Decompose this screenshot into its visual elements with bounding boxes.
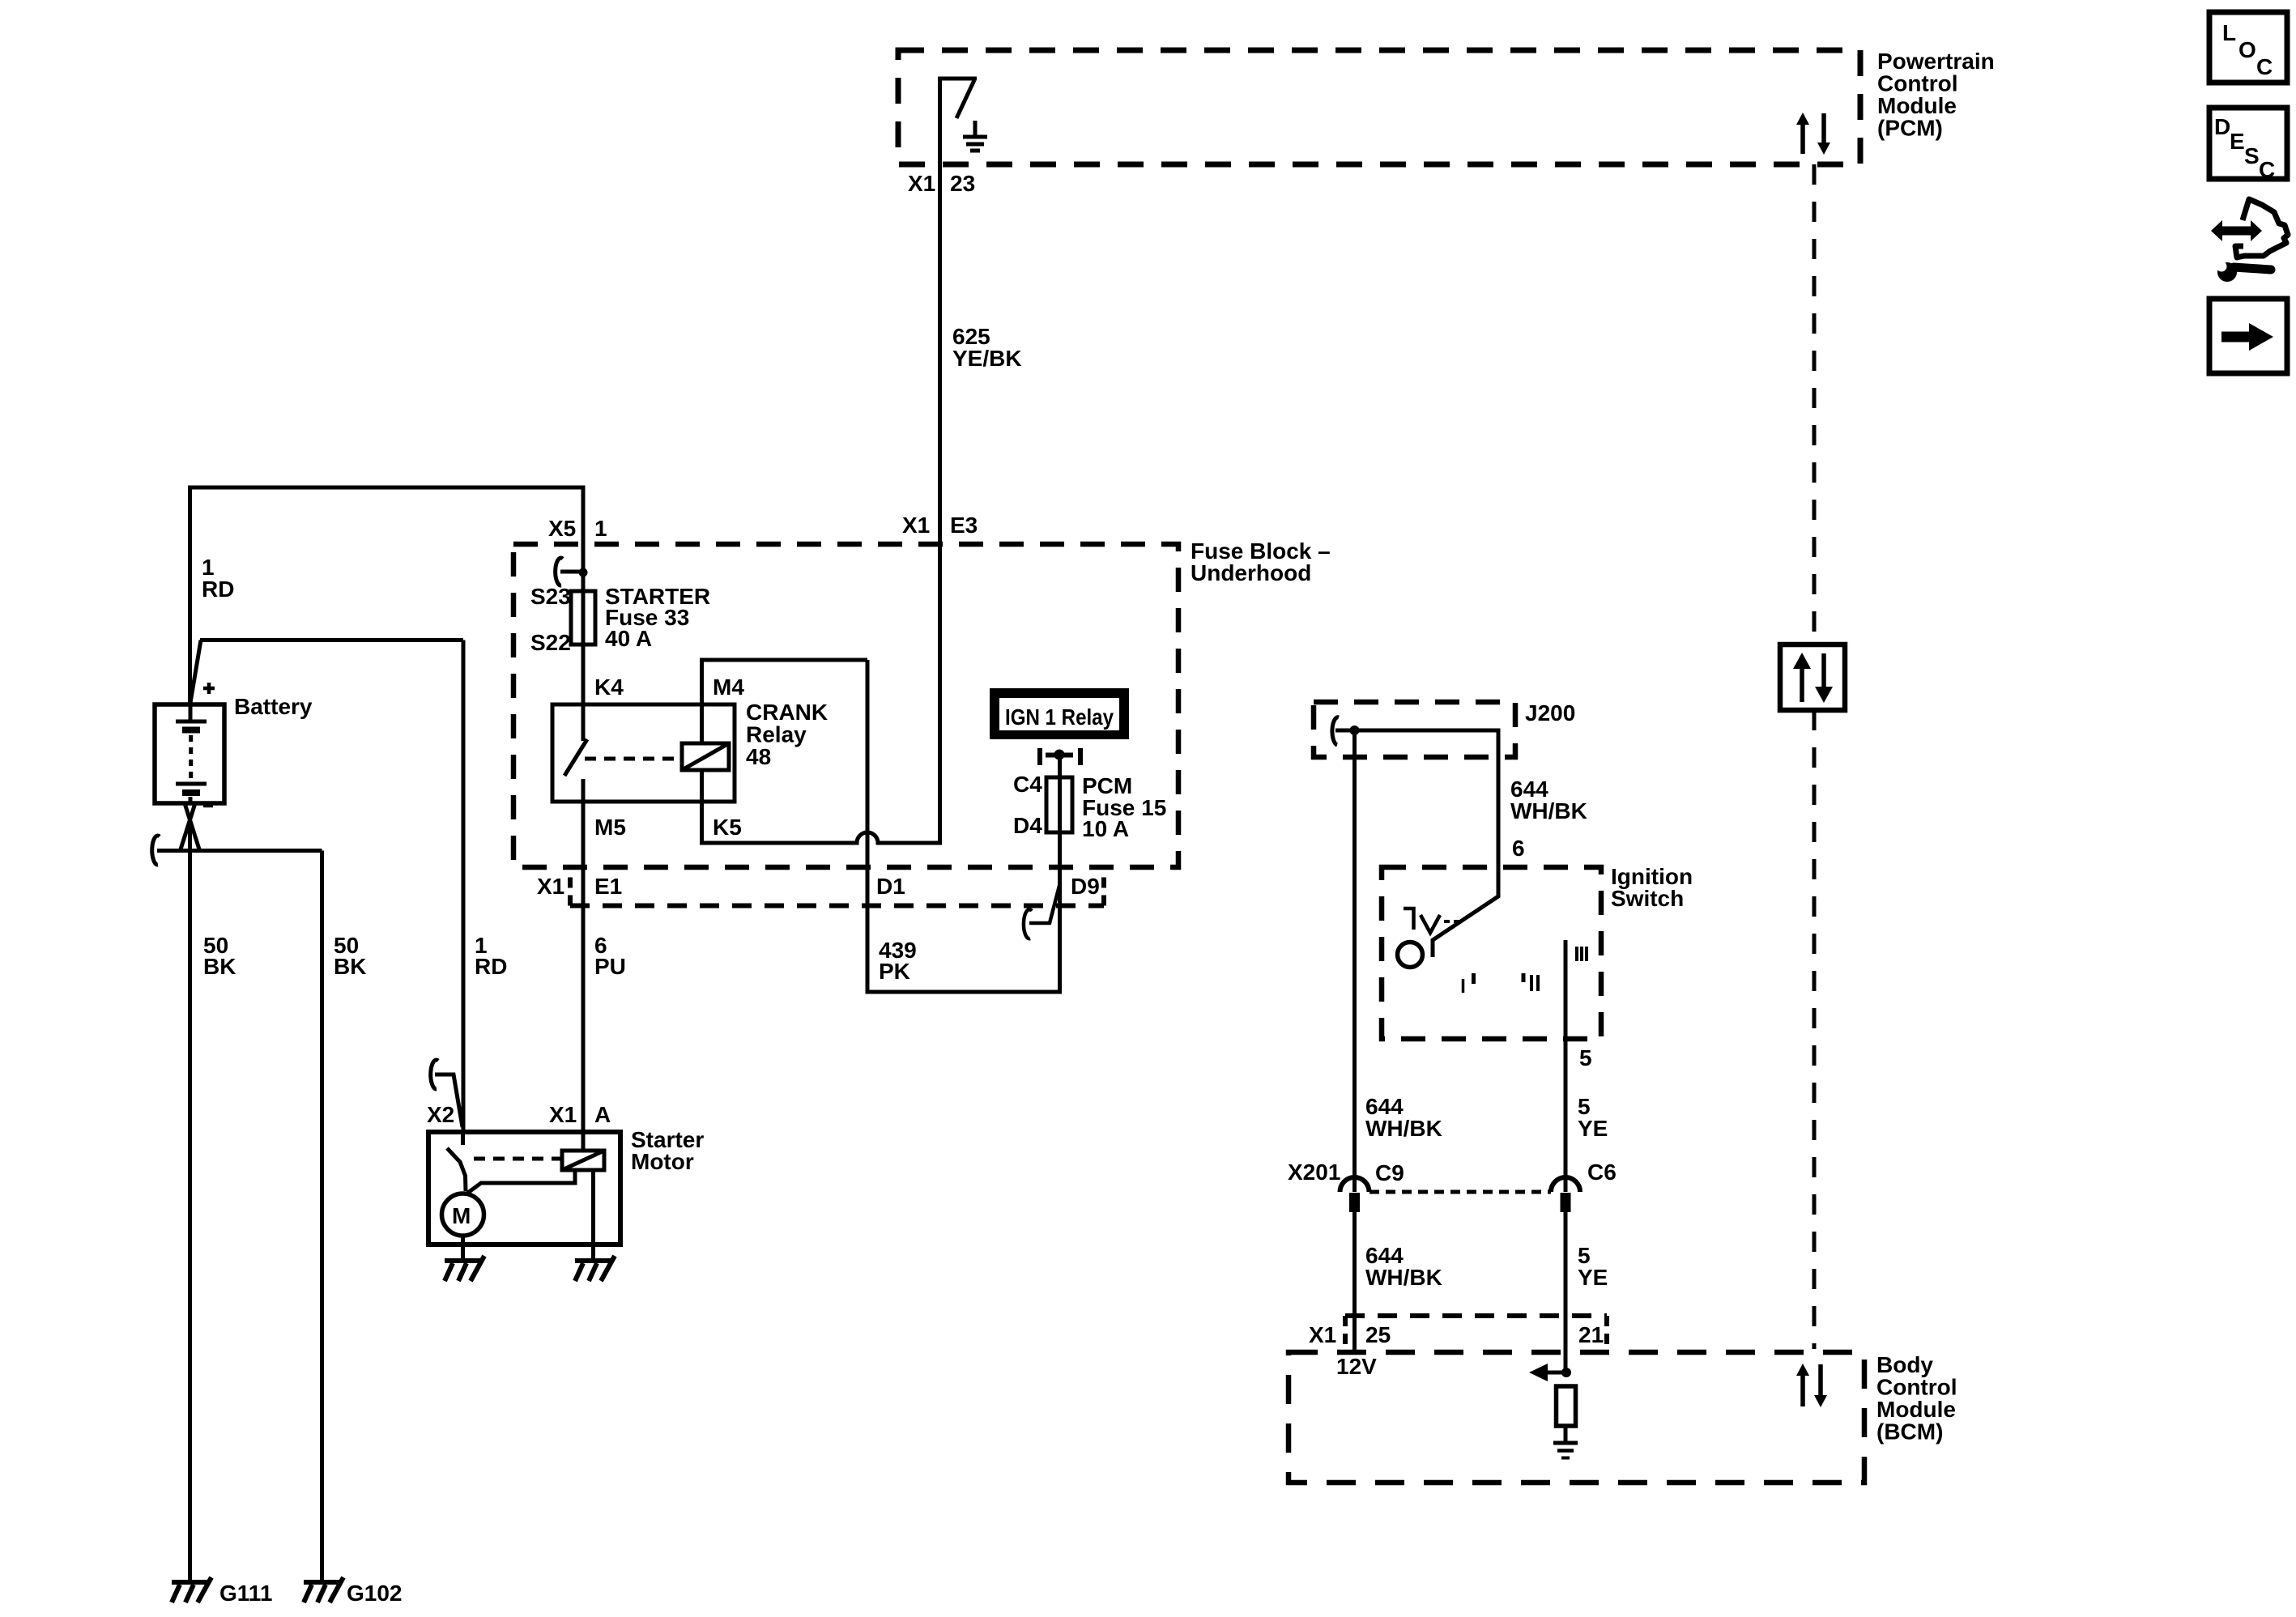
- svg-text:25: 25: [1365, 1322, 1391, 1347]
- svg-text:Control: Control: [1877, 71, 1958, 96]
- svg-text:WH/BK: WH/BK: [1365, 1116, 1442, 1141]
- svg-text:10 A: 10 A: [1082, 816, 1129, 841]
- svg-text:1: 1: [594, 516, 607, 541]
- svg-text:J200: J200: [1525, 700, 1575, 726]
- svg-text:Module: Module: [1877, 93, 1957, 118]
- svg-text:C: C: [2256, 54, 2273, 79]
- svg-text:Relay: Relay: [746, 722, 807, 747]
- svg-text:YE: YE: [1578, 1116, 1608, 1141]
- svg-text:BK: BK: [203, 954, 236, 979]
- svg-text:X1: X1: [1309, 1322, 1336, 1347]
- svg-text:RD: RD: [202, 577, 234, 602]
- svg-text:40 A: 40 A: [605, 626, 652, 651]
- svg-text:IGN 1 Relay: IGN 1 Relay: [1005, 704, 1114, 730]
- svg-text:M5: M5: [594, 815, 626, 840]
- svg-text:PK: PK: [879, 959, 910, 984]
- svg-text:O: O: [2238, 37, 2256, 62]
- svg-text:Body: Body: [1876, 1352, 1933, 1377]
- svg-text:E1: E1: [594, 874, 622, 899]
- svg-text:Battery: Battery: [234, 694, 313, 719]
- svg-text:X5: X5: [548, 516, 576, 541]
- svg-text:X2: X2: [427, 1102, 454, 1127]
- svg-text:WH/BK: WH/BK: [1510, 798, 1587, 823]
- svg-text:YE/BK: YE/BK: [952, 346, 1022, 371]
- svg-text:C: C: [2259, 157, 2275, 182]
- svg-text:E3: E3: [950, 513, 978, 538]
- svg-text:YE: YE: [1578, 1265, 1608, 1290]
- svg-text:Control: Control: [1876, 1375, 1957, 1400]
- svg-text:C4: C4: [1013, 772, 1042, 797]
- svg-text:6: 6: [1512, 836, 1525, 861]
- svg-text:S: S: [2244, 143, 2260, 168]
- svg-text:S22: S22: [530, 630, 571, 655]
- svg-text:5: 5: [1579, 1045, 1592, 1070]
- svg-text:BK: BK: [334, 954, 366, 979]
- svg-text:D1: D1: [876, 874, 905, 899]
- svg-text:S23: S23: [530, 584, 571, 609]
- svg-text:(BCM): (BCM): [1876, 1419, 1943, 1445]
- svg-text:Motor: Motor: [631, 1149, 694, 1174]
- svg-text:48: 48: [746, 744, 771, 769]
- svg-text:23: 23: [950, 171, 975, 196]
- svg-text:D4: D4: [1013, 813, 1042, 838]
- svg-text:M: M: [452, 1203, 471, 1228]
- svg-text:Powertrain: Powertrain: [1877, 49, 1995, 74]
- svg-text:K4: K4: [594, 674, 624, 700]
- svg-text:X1: X1: [549, 1102, 577, 1127]
- svg-text:21: 21: [1578, 1322, 1604, 1347]
- svg-text:X1: X1: [537, 874, 564, 899]
- svg-text:CRANK: CRANK: [746, 700, 828, 725]
- svg-text:(PCM): (PCM): [1877, 116, 1943, 141]
- svg-text:X1: X1: [902, 513, 930, 538]
- svg-text:C6: C6: [1587, 1160, 1617, 1185]
- svg-text:D: D: [2214, 114, 2230, 139]
- svg-text:D9: D9: [1071, 874, 1100, 899]
- svg-text:X201: X201: [1288, 1160, 1340, 1185]
- svg-text:K5: K5: [713, 815, 742, 840]
- svg-text:X1: X1: [908, 171, 935, 196]
- svg-text:M4: M4: [713, 674, 744, 700]
- svg-text:PU: PU: [594, 954, 626, 979]
- svg-text:WH/BK: WH/BK: [1365, 1265, 1442, 1290]
- svg-text:L: L: [2222, 20, 2236, 45]
- svg-text:G102: G102: [347, 1581, 403, 1606]
- svg-text:E: E: [2230, 129, 2245, 154]
- svg-text:Switch: Switch: [1611, 886, 1684, 911]
- svg-text:Underhood: Underhood: [1191, 560, 1311, 585]
- svg-text:RD: RD: [475, 954, 507, 979]
- svg-text:A: A: [594, 1102, 611, 1127]
- svg-text:G111: G111: [219, 1581, 272, 1606]
- svg-text:Module: Module: [1876, 1397, 1956, 1422]
- svg-text:12V: 12V: [1336, 1354, 1377, 1379]
- svg-text:C9: C9: [1375, 1160, 1404, 1185]
